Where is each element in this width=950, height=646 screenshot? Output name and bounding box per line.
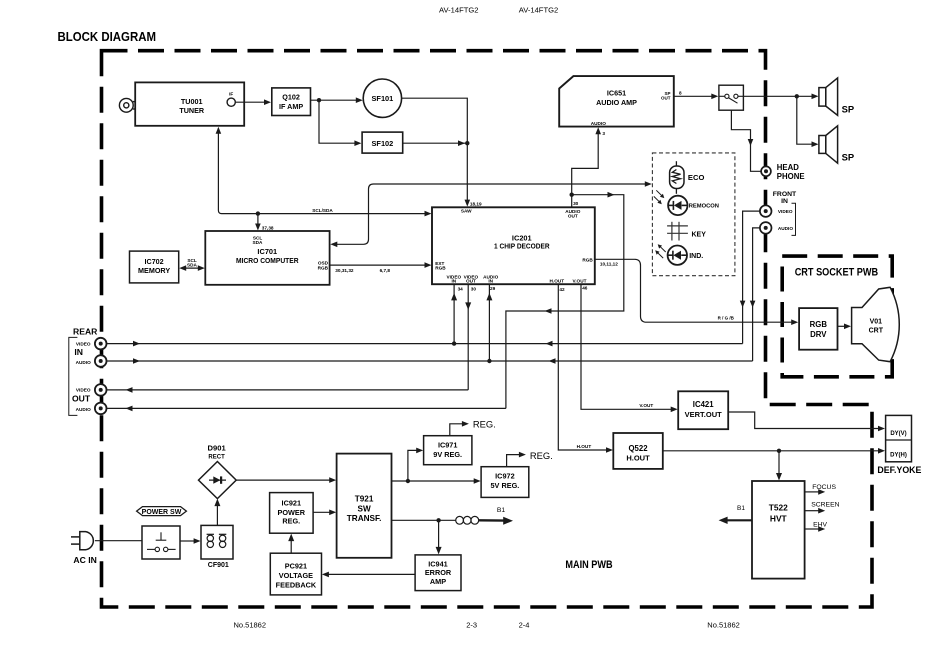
wire switch to headphone jack — [731, 110, 760, 171]
wire EHV — [805, 528, 820, 530]
svg-text:D901: D901 — [208, 444, 227, 453]
rectifier D901 RECT — [199, 462, 237, 499]
svg-text:SAW: SAW — [461, 209, 472, 214]
wire PC921 to IC921 — [290, 539, 292, 554]
svg-text:V.OUT: V.OUT — [573, 279, 587, 284]
connector rear VIDEO in jack — [95, 338, 107, 350]
svg-text:RGB: RGB — [435, 266, 446, 271]
svg-text:VIDEO: VIDEO — [76, 342, 91, 347]
svg-text:V.OUT: V.OUT — [639, 403, 653, 408]
svg-text:EHV: EHV — [813, 522, 827, 529]
transformer T921 — [337, 454, 392, 558]
wire junction to T522 — [778, 451, 780, 476]
error amp IC941 — [415, 555, 461, 591]
svg-text:OUT: OUT — [661, 96, 671, 101]
decoder IC201 — [432, 207, 595, 284]
svg-text:SF102: SF102 — [372, 139, 394, 148]
svg-text:2-4: 2-4 — [519, 620, 530, 629]
regulator IC971 — [424, 436, 472, 465]
svg-text:H.OUT: H.OUT — [626, 454, 650, 463]
wire key/remocon to IC701 — [336, 184, 646, 244]
node SCL/SDA junction — [256, 211, 260, 215]
svg-text:RGB: RGB — [582, 257, 593, 262]
svg-text:H.OUT: H.OUT — [550, 279, 565, 284]
node audio in junction — [487, 359, 491, 363]
svg-text:DRV: DRV — [810, 330, 827, 339]
svg-text:CRT: CRT — [869, 327, 884, 334]
svg-text:RGB: RGB — [810, 320, 828, 329]
wire IC972 REG out — [507, 455, 521, 467]
wire tuner to Q102 — [235, 101, 265, 103]
svg-text:DY(V): DY(V) — [890, 431, 906, 437]
svg-text:POWER: POWER — [278, 508, 306, 517]
switch headphone jack switch — [719, 85, 744, 110]
svg-text:AV-14FTG2: AV-14FTG2 — [439, 6, 479, 15]
deflection yoke DY — [886, 415, 912, 461]
svg-text:30,31,32: 30,31,32 — [335, 268, 354, 273]
svg-text:IF AMP: IF AMP — [279, 102, 303, 111]
node audio out junction — [570, 193, 574, 197]
svg-text:HVT: HVT — [770, 513, 788, 523]
svg-text:IN: IN — [781, 198, 788, 205]
svg-text:POWER SW: POWER SW — [142, 509, 182, 516]
wire FOCUS — [805, 491, 820, 493]
wire T921 to IC972 — [392, 480, 476, 482]
svg-text:IC421: IC421 — [693, 400, 714, 409]
svg-text:PC921: PC921 — [285, 562, 307, 571]
inductor B1 coil — [456, 516, 479, 524]
svg-text:SP: SP — [842, 103, 855, 114]
speaker SP top — [819, 78, 838, 115]
svg-text:HEAD: HEAD — [777, 163, 799, 172]
wire B1 from T522 — [726, 519, 752, 521]
svg-text:B1: B1 — [737, 505, 745, 512]
svg-text:CF901: CF901 — [208, 562, 229, 569]
wire IC201 H.OUT to Q522 — [558, 284, 608, 450]
wire T921 B1 output with coil — [392, 519, 456, 521]
node flyback junction — [777, 449, 781, 453]
switch power switch — [142, 526, 180, 559]
AC plug — [71, 532, 93, 550]
svg-text:SDA: SDA — [187, 263, 198, 268]
node B1 junction — [436, 518, 440, 522]
svg-text:30: 30 — [471, 287, 477, 292]
svg-text:No.51862: No.51862 — [707, 620, 740, 629]
amplifier Q102 IF AMP — [272, 88, 311, 116]
h out Q522 — [613, 433, 663, 469]
wire switch to CF901 — [180, 540, 196, 542]
svg-text:MEMORY: MEMORY — [138, 266, 170, 275]
receiver REMOCON — [668, 196, 687, 215]
regulator IC921 — [270, 493, 314, 534]
wire rear video out bus — [106, 389, 468, 391]
svg-text:SCL/SDA: SCL/SDA — [312, 208, 333, 213]
svg-text:MICRO COMPUTER: MICRO COMPUTER — [236, 256, 299, 265]
svg-text:SP: SP — [842, 151, 855, 162]
svg-text:IC972: IC972 — [495, 471, 514, 480]
svg-text:R / G /B: R / G /B — [718, 315, 735, 320]
svg-text:B1: B1 — [497, 507, 506, 514]
svg-text:T921: T921 — [355, 494, 374, 503]
svg-text:IC651: IC651 — [607, 88, 626, 97]
opto PC921 — [270, 553, 321, 595]
wire IC921 to T921 — [313, 511, 331, 513]
wire IC201 video in pin — [453, 285, 455, 344]
connector rear AUDIO in jack — [95, 355, 107, 367]
wire IC971 REG out — [450, 424, 464, 436]
wire front video jack to video bus — [743, 211, 760, 344]
flyback T522 HVT — [752, 481, 805, 579]
svg-text:ECO: ECO — [688, 173, 705, 182]
svg-text:IC702: IC702 — [145, 257, 164, 266]
svg-text:AUDIO: AUDIO — [76, 407, 91, 412]
svg-text:VOLTAGE: VOLTAGE — [279, 571, 313, 580]
label POWER SW — [137, 507, 187, 516]
regulator IC972 — [481, 467, 529, 498]
svg-text:No.51862: No.51862 — [234, 620, 267, 629]
wire front audio jack to audio bus — [753, 228, 760, 361]
svg-text:SDA: SDA — [253, 240, 264, 245]
wire IC201 video out pin — [467, 285, 469, 390]
node speaker junction — [795, 94, 799, 98]
wire IC701 OSD to IC201 — [330, 264, 427, 266]
wire micro to tuner (band select) — [218, 128, 426, 213]
node 9V junction — [406, 479, 410, 483]
CRT SOCKET PWB dashed border — [782, 256, 892, 377]
svg-text:FEEDBACK: FEEDBACK — [276, 581, 317, 590]
svg-text:10,11,12: 10,11,12 — [600, 261, 618, 266]
driver RGB DRV — [799, 308, 837, 350]
svg-text:AUDIO: AUDIO — [591, 121, 606, 126]
filter SF101 — [363, 79, 401, 117]
audio amp IC651 — [559, 76, 674, 127]
svg-text:CRT SOCKET PWB: CRT SOCKET PWB — [795, 267, 879, 279]
svg-text:MAIN PWB: MAIN PWB — [565, 559, 612, 571]
wire SF102 to SAW line — [403, 142, 468, 144]
svg-text:KEY: KEY — [692, 231, 707, 238]
wire IC702 to IC701 bidirectional — [182, 267, 203, 269]
wire junction to IC941 — [438, 520, 440, 549]
CRT V01 — [852, 287, 900, 361]
svg-text:Q522: Q522 — [628, 444, 648, 453]
bracket rear — [69, 337, 78, 415]
svg-text:VERT.OUT: VERT.OUT — [685, 410, 723, 419]
filter SF102 — [362, 132, 403, 153]
svg-text:SCREEN: SCREEN — [811, 502, 839, 509]
keypad KEY — [667, 222, 688, 241]
svg-text:IF: IF — [229, 92, 233, 97]
bracket front in — [792, 203, 796, 235]
svg-text:VIDEO: VIDEO — [778, 209, 793, 214]
memory IC702 — [130, 251, 179, 283]
svg-text:Q102: Q102 — [282, 93, 300, 102]
wire IC941 to PC921 — [327, 573, 415, 575]
wire audio out to IC651 audio in — [572, 131, 599, 195]
svg-text:T522: T522 — [769, 502, 788, 512]
wire IC201 RGB to RGB DRV — [595, 259, 793, 322]
svg-text:3: 3 — [602, 131, 605, 136]
svg-text:IC971: IC971 — [438, 441, 457, 450]
svg-text:TUNER: TUNER — [179, 106, 205, 115]
svg-text:BLOCK DIAGRAM: BLOCK DIAGRAM — [58, 30, 157, 44]
svg-text:37,38: 37,38 — [262, 226, 274, 231]
wire IC651 SP out to headphone switch — [674, 95, 713, 97]
svg-text:IND.: IND. — [689, 253, 703, 260]
wire junction to IC971 — [408, 450, 418, 481]
svg-text:FOCUS: FOCUS — [812, 484, 836, 491]
svg-text:VIDEO: VIDEO — [76, 387, 91, 392]
svg-text:AMP: AMP — [430, 577, 446, 586]
svg-text:2-3: 2-3 — [466, 620, 477, 629]
connector rear VIDEO out jack — [95, 384, 107, 396]
wire D901 to T921 — [236, 479, 331, 481]
svg-text:TU001: TU001 — [181, 97, 203, 106]
wire branch to SF102 — [319, 100, 356, 143]
wire rear audio in bus — [106, 360, 752, 362]
svg-text:DY(H): DY(H) — [890, 452, 907, 458]
svg-text:RECT: RECT — [208, 454, 225, 460]
svg-text:8: 8 — [679, 90, 682, 95]
front panel dashed box — [652, 153, 735, 276]
svg-text:OUT: OUT — [72, 394, 91, 404]
connector front AUDIO jack — [760, 222, 772, 234]
wire to speaker 2 — [797, 96, 814, 144]
eco sensor ECO — [670, 161, 684, 194]
svg-text:PHONE: PHONE — [777, 172, 805, 181]
svg-text:OUT: OUT — [568, 214, 578, 219]
svg-text:18,19: 18,19 — [470, 201, 482, 206]
wire IC201 audio in pin — [488, 285, 490, 361]
svg-text:V01: V01 — [870, 318, 883, 325]
svg-text:IC921: IC921 — [282, 498, 301, 507]
svg-text:1 CHIP DECODER: 1 CHIP DECODER — [494, 241, 550, 250]
connector rear AUDIO out jack — [95, 403, 107, 415]
svg-text:REG.: REG. — [473, 418, 496, 429]
wire IC201 V.OUT to IC421 — [581, 284, 673, 409]
speaker SP bottom — [819, 126, 838, 163]
wire IC201 audio out pin 30 — [571, 195, 573, 208]
wire rear audio out bus — [106, 407, 506, 409]
connector front VIDEO jack — [760, 205, 772, 217]
svg-text:DEF.YOKE: DEF.YOKE — [877, 465, 921, 475]
wire RGB DRV to CRT — [838, 325, 846, 327]
svg-text:H.OUT: H.OUT — [577, 444, 592, 449]
wire junction down to IC701 — [257, 214, 259, 226]
svg-text:30: 30 — [573, 201, 579, 206]
line filter CF901 — [201, 525, 233, 559]
led IND. — [668, 246, 687, 265]
connector HEAD PHONE jack — [761, 166, 771, 176]
svg-text:IN: IN — [74, 347, 83, 357]
svg-text:9V REG.: 9V REG. — [433, 450, 462, 459]
node SF102 junction — [465, 141, 469, 145]
microcomputer IC701 — [205, 231, 329, 285]
svg-text:AC IN: AC IN — [73, 555, 96, 565]
wire SF101 to IC201 SAW pin — [402, 98, 468, 201]
svg-text:29: 29 — [490, 286, 496, 291]
svg-text:6,7,8: 6,7,8 — [380, 268, 391, 273]
svg-text:SF101: SF101 — [372, 94, 394, 103]
vert out IC421 — [678, 391, 728, 429]
wire Q102 to SF101 — [311, 99, 358, 101]
tuner TU001 — [135, 82, 244, 125]
svg-text:5V REG.: 5V REG. — [491, 481, 520, 490]
svg-text:34: 34 — [458, 286, 464, 291]
svg-text:TRANSF.: TRANSF. — [347, 514, 382, 523]
tuner IF pin — [227, 98, 235, 106]
wire rear video in bus — [106, 343, 742, 345]
svg-text:IN: IN — [451, 279, 456, 284]
svg-text:IC701: IC701 — [257, 247, 277, 256]
node video in junction — [452, 341, 456, 345]
svg-text:IN: IN — [488, 279, 493, 284]
svg-text:RGB: RGB — [318, 265, 329, 270]
svg-text:OUT: OUT — [466, 279, 476, 284]
antenna input symbol — [119, 98, 136, 112]
svg-text:REG.: REG. — [530, 450, 553, 461]
svg-text:REAR: REAR — [73, 326, 98, 336]
wire audio out to rear audio out jack — [506, 195, 624, 409]
svg-text:AUDIO: AUDIO — [76, 360, 91, 365]
svg-text:AUDIO AMP: AUDIO AMP — [596, 98, 637, 107]
wire CF901 to D901 — [216, 504, 218, 526]
wire SCREEN — [805, 510, 820, 512]
svg-text:REG.: REG. — [282, 517, 300, 526]
svg-text:46: 46 — [582, 286, 588, 291]
wire AC to power switch — [95, 540, 142, 542]
wire switch to speakers — [743, 95, 813, 97]
wire IC421 to DY(V) — [728, 412, 880, 429]
node junction after Q102 — [317, 98, 321, 102]
svg-text:AUDIO: AUDIO — [778, 226, 793, 231]
wire Q522 to DY(H) — [663, 450, 880, 452]
svg-text:REMOCON: REMOCON — [689, 204, 719, 210]
svg-text:SW: SW — [357, 504, 370, 513]
svg-text:AV-14FTG2: AV-14FTG2 — [519, 6, 559, 15]
main PWB dashed border — [102, 51, 873, 607]
svg-text:42: 42 — [559, 287, 565, 292]
